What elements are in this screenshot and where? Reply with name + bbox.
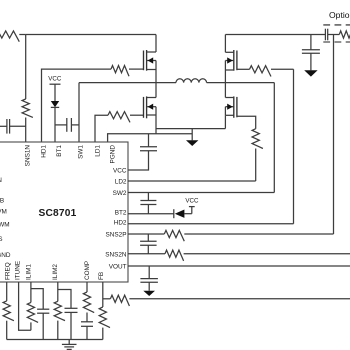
resistor R_HD1 (gate) [111, 66, 129, 77]
capacitor C_VOUT [148, 266, 150, 279]
svg-text:ILIM1: ILIM1 [26, 264, 33, 280]
wire SW2 riser [273, 83, 275, 193]
resistor R_SNS1N (vertical) [22, 99, 33, 117]
wire Q4 source to SW2 [224, 70, 226, 83]
transistor Q3 [236, 97, 238, 117]
svg-text:LD1: LD1 [95, 145, 102, 157]
wire Q2 drain to SW1 [155, 83, 157, 98]
wire HD2 riser [293, 69, 295, 224]
wire SNS2P line [128, 233, 164, 235]
resistor R_ILIM2 [54, 301, 65, 320]
wire C_OUT riser [310, 35, 312, 50]
wire HD2 line [128, 223, 294, 225]
wire Q3 drain to SW2 [224, 83, 226, 98]
svg-text:AGND: AGND [0, 252, 11, 259]
VCC bar symbol [50, 83, 61, 85]
resistor R_FB1 [110, 295, 129, 306]
wire VOUT rail [225, 34, 325, 36]
inductor L1 [176, 79, 207, 83]
wire VCC cap tap [148, 134, 150, 147]
resistor R_COMP [83, 292, 94, 313]
resistor R_SNS2P [164, 230, 184, 241]
svg-text:SW1: SW1 [78, 145, 85, 159]
wire SW1 rail [79, 82, 176, 84]
wire Q4 drain to VOUT rail [224, 35, 226, 53]
wire Q3 source down [224, 115, 226, 128]
wire SNS2N line [128, 253, 165, 255]
wire PGND rail between Q2/Q3 sources [156, 128, 225, 130]
diode D_BT1 [51, 101, 59, 107]
dashed optional box [323, 25, 350, 42]
resistor R_SNUB (clipped) [339, 31, 350, 42]
resistor R_LD1 (gate) [108, 112, 130, 123]
wire Q2 source down [155, 115, 157, 134]
capacitor C_BT1 (bootstrap) [55, 124, 67, 126]
svg-text:PGND: PGND [110, 145, 117, 164]
svg-text:LD2: LD2 [115, 178, 127, 185]
wire COMP pin [86, 282, 88, 292]
svg-text:PVM: PVM [0, 209, 7, 216]
wire ILIM2 cap branch [58, 290, 71, 309]
capacitor C_COMP [81, 321, 93, 323]
svg-text:FREQ: FREQ [4, 262, 11, 280]
svg-text:BT1: BT1 [56, 145, 63, 157]
wire D_BT2 anode to VCC [184, 213, 191, 215]
resistor R_FB2 (lower divider) [99, 307, 110, 328]
wire BT1 riser [54, 107, 56, 142]
wire LD2 line [128, 180, 256, 182]
ground symbol (VOUT cap) [143, 291, 155, 296]
ground symbol (earth) [68, 340, 70, 345]
IC U1 SC8701 box [0, 142, 128, 282]
wire VIN rail to Q1 drain [26, 34, 156, 36]
wire Q3 gate lead [237, 116, 256, 129]
svg-text:BT2: BT2 [115, 210, 127, 217]
wire HD1 riser [42, 69, 112, 142]
wire VOUT line [128, 265, 350, 267]
wire FB pin [102, 282, 104, 307]
capacitor C_BT2 (bootstrap) [147, 193, 149, 201]
svg-text:Optional: Optional [329, 10, 350, 20]
svg-text:SW2: SW2 [113, 190, 127, 197]
svg-text:VCC: VCC [185, 197, 199, 204]
svg-text:SNS1N: SNS1N [25, 145, 32, 167]
transistor Q2 [143, 97, 145, 118]
wire ILIM2 pin [57, 282, 59, 301]
svg-text:SC8701: SC8701 [38, 208, 76, 219]
svg-text:VCC: VCC [48, 76, 62, 83]
wire ITUNE pin [19, 282, 31, 330]
diode D_BT2 [173, 209, 175, 218]
wire snub to SNS2P riser [333, 35, 335, 235]
svg-text:SNS2P: SNS2P [106, 231, 127, 238]
wire SW2 line [128, 192, 274, 194]
svg-text:COMP: COMP [84, 261, 91, 280]
wire FREQ pin [6, 282, 8, 301]
capacitor C_SNS2 (diff filter) [147, 234, 149, 241]
svg-text:SNS2N: SNS2N [105, 251, 127, 258]
transistor Q1 [143, 51, 145, 71]
wire snub junction [328, 34, 340, 36]
capacitor C_SNS1 (to off-screen SNS1P) [0, 125, 7, 127]
resistor R_LD2 (gate, vertical) [252, 129, 263, 149]
resistor R_SNS1 (input sense, clipped at left edge) [0, 31, 19, 42]
svg-text:HD1: HD1 [41, 145, 48, 158]
wire SW1 riser [78, 83, 80, 142]
VCC bar symbol (BT2) [191, 207, 193, 214]
svg-text:FB: FB [98, 272, 105, 280]
capacitor C_ILIM1 [37, 308, 49, 310]
wire PGND pin line [108, 134, 193, 142]
capacitor C_VCC [140, 146, 157, 148]
resistor R_ILIM1 [27, 302, 38, 322]
svg-text:VOUT: VOUT [109, 263, 127, 270]
wire C_OUT to ground [310, 53, 312, 70]
svg-text:FB: FB [0, 198, 4, 205]
svg-text:ILIM2: ILIM2 [52, 264, 59, 280]
resistor R_HD2 (gate) [250, 66, 271, 77]
wire VCC pin line [128, 151, 149, 170]
wire Q1 source to SW1 [155, 70, 157, 83]
wire Q4 gate lead [237, 68, 250, 70]
node SNS1N riser [25, 35, 27, 100]
capacitor C_SNUB [324, 29, 326, 41]
wire SW2 node to riser [225, 82, 274, 84]
ground symbol (power) [191, 129, 193, 141]
svg-text:ITUNE: ITUNE [15, 261, 22, 280]
resistor R_SNS2N [165, 250, 184, 261]
wire LD1 riser [95, 115, 108, 142]
svg-text:VCC: VCC [113, 167, 127, 174]
svg-text:SS: SS [0, 236, 3, 243]
svg-text:PWM: PWM [0, 222, 10, 229]
ground symbol (output cap) [304, 70, 317, 76]
wire BT2 line [128, 213, 174, 215]
svg-text:HD2: HD2 [114, 220, 127, 227]
transistor Q4 [236, 51, 238, 71]
wire FB junction [103, 298, 111, 300]
resistor R_FREQ [3, 301, 14, 321]
capacitor C_OUT [302, 49, 320, 51]
wire Q1 drain to VIN [155, 35, 157, 53]
wire ILIM1 cap branch [31, 289, 43, 310]
wire ILIM1 pin [30, 282, 32, 302]
capacitor C_ILIM2 [65, 307, 78, 309]
wire analog ground rail [7, 339, 103, 341]
